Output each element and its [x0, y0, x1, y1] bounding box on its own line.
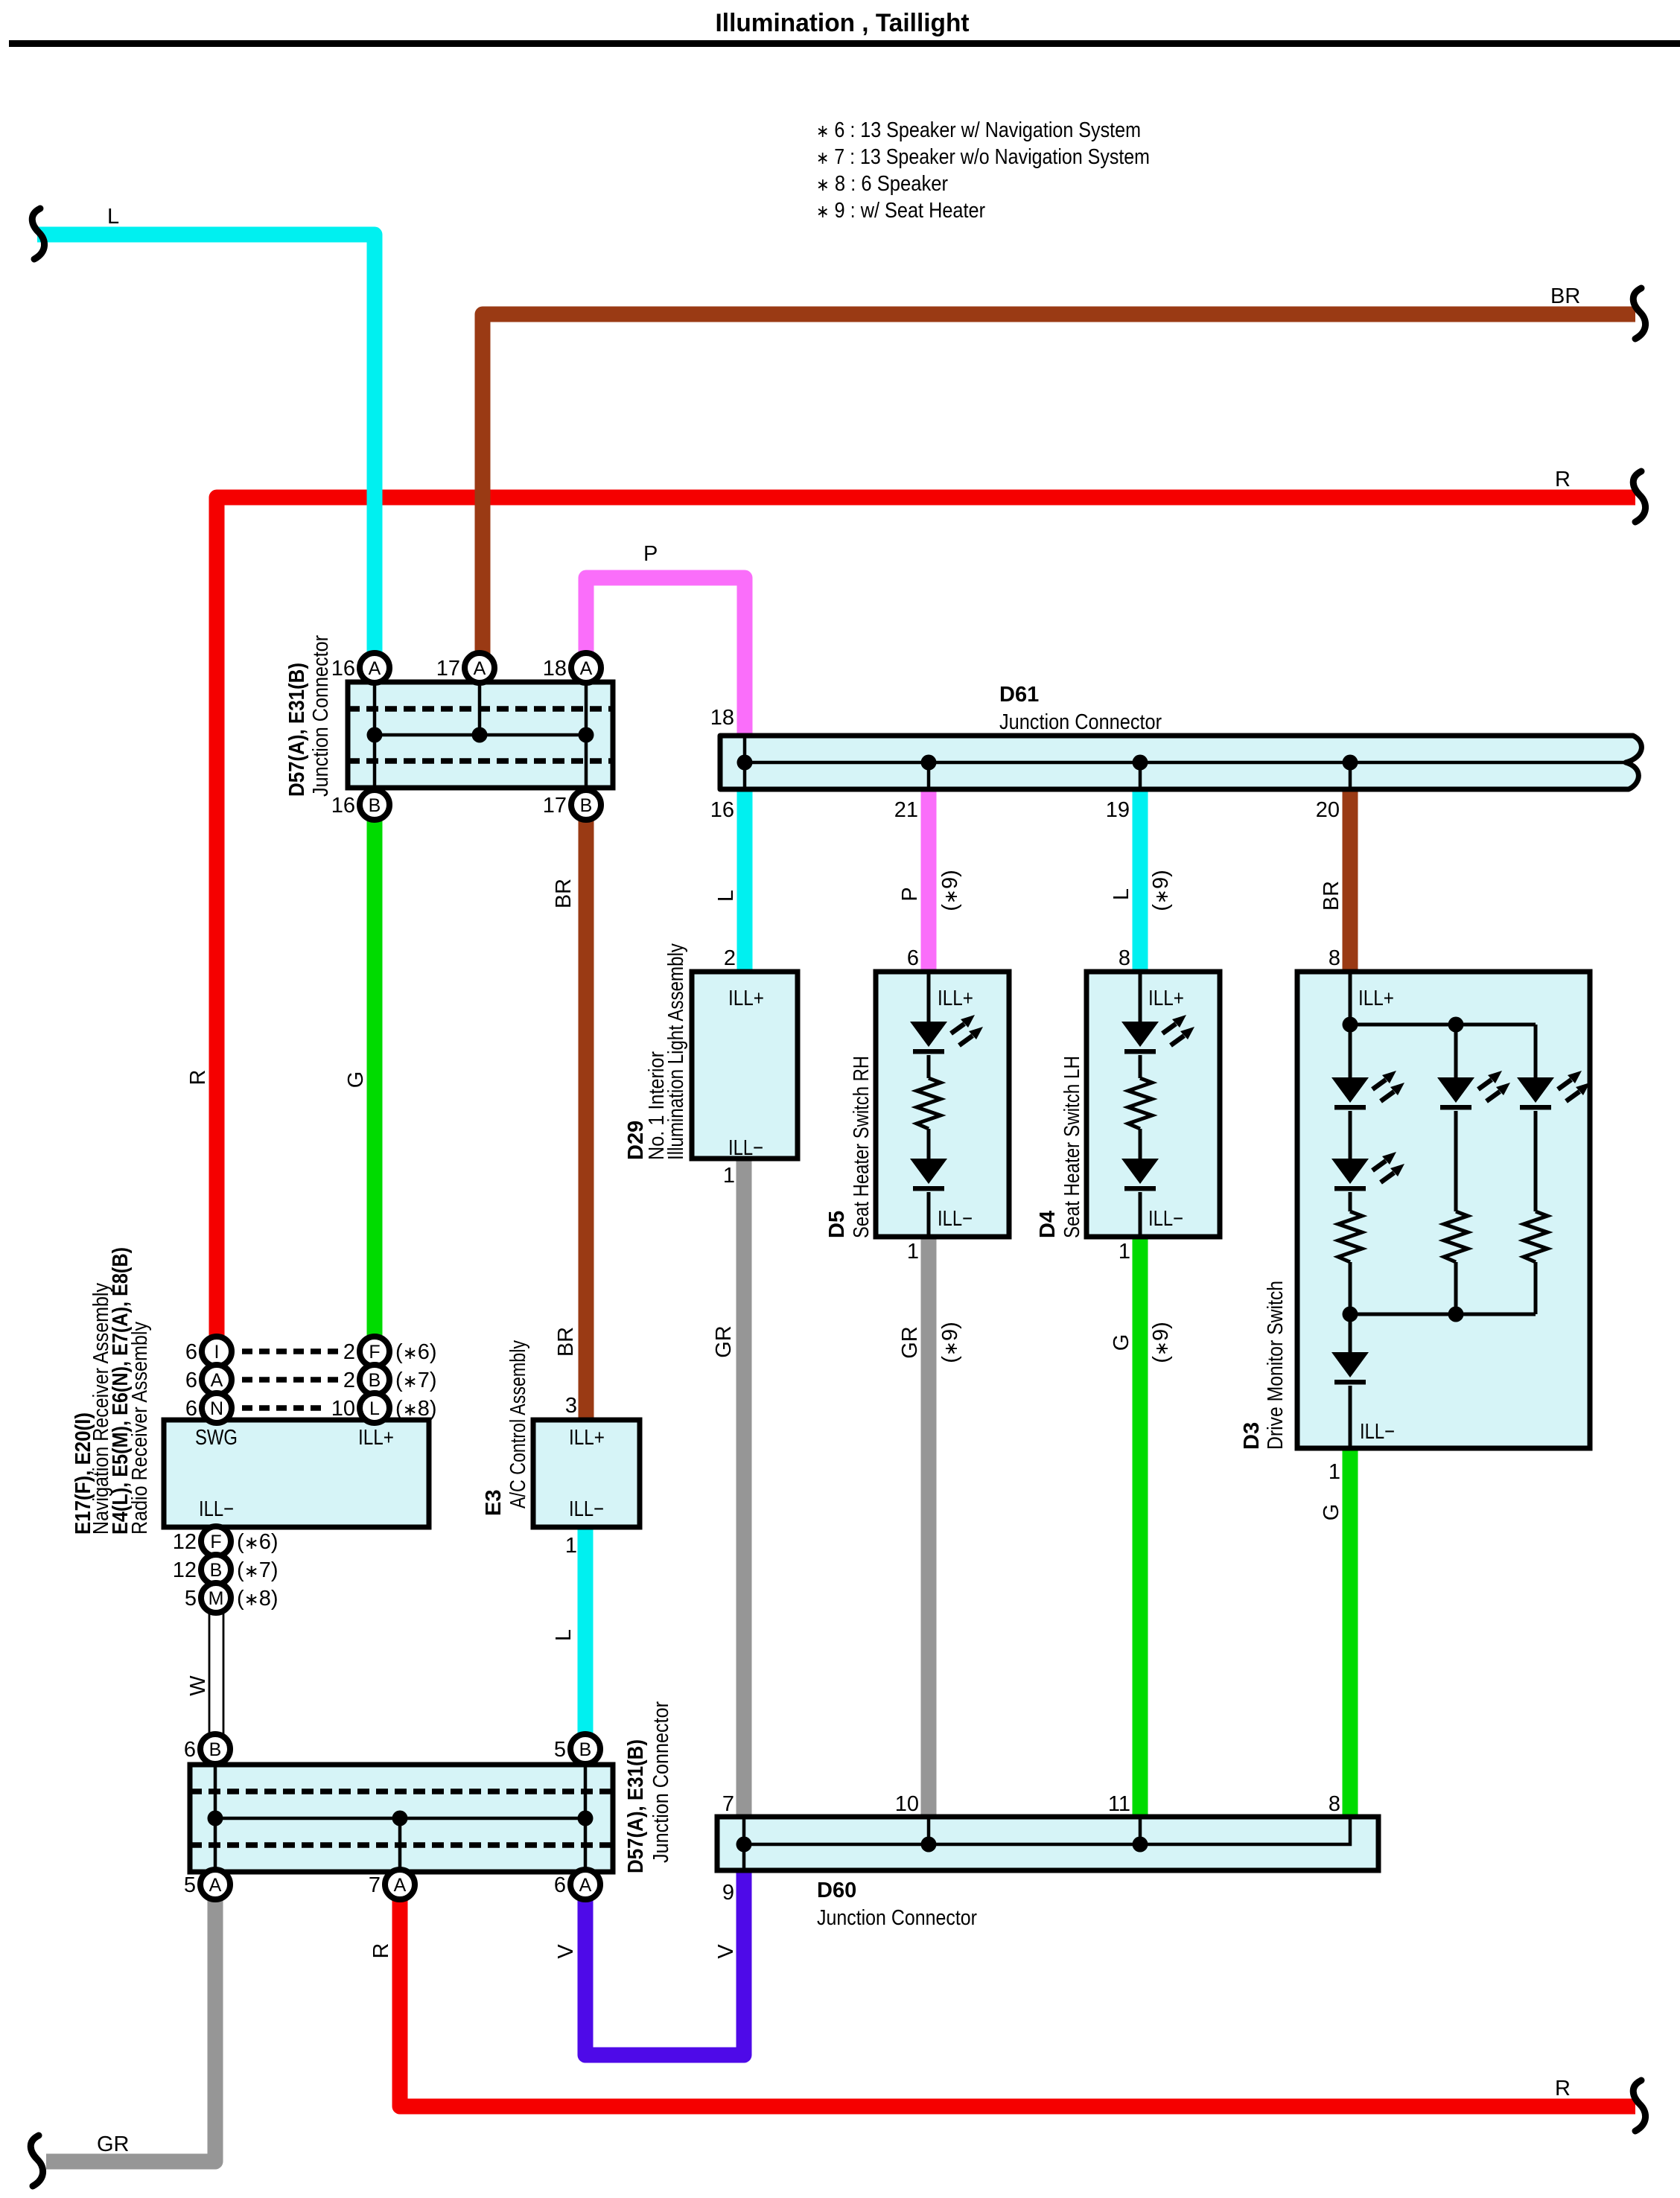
wire BR (brown) D57 pin 17B to E3 pin 3 [579, 805, 594, 1420]
svg-text:B: B [369, 1370, 381, 1391]
svg-text:G: G [1110, 1334, 1133, 1351]
pin 5B circle of bottom D57 [570, 1734, 600, 1764]
svg-text:10: 10 [331, 1397, 355, 1421]
svg-text:(∗6): (∗6) [237, 1530, 279, 1554]
D60 internal stub pin 11 [1139, 1817, 1142, 1844]
svg-text:B: B [580, 795, 593, 816]
svg-text:D57(A), E31(B): D57(A), E31(B) [285, 663, 309, 797]
svg-text:GR: GR [97, 2132, 130, 2156]
D60 internal stub pin 10 [927, 1817, 931, 1844]
svg-text:6: 6 [185, 1340, 197, 1364]
svg-text:G: G [344, 1071, 368, 1089]
D60 internal bus [744, 1817, 1350, 1844]
svg-text:L: L [369, 1398, 380, 1419]
junction connector D57(A),E31(B) top box [348, 682, 613, 788]
D4 diode cathode bar [1124, 1186, 1156, 1191]
svg-text:A: A [369, 658, 381, 679]
wire V (violet) D57 pin 6A to D60 pin 9 [585, 1870, 744, 2055]
wire L (cyan) D61 pin 16 to D29 pin 2 [737, 789, 753, 972]
top D57 junction dot 17 [472, 727, 488, 743]
bottom D57 dashed line lower [190, 1842, 613, 1848]
svg-text:BR: BR [552, 879, 576, 908]
svg-text:Drive Monitor Switch: Drive Monitor Switch [1264, 1281, 1288, 1450]
svg-text:F: F [210, 1532, 221, 1552]
D4 LED cathode bar [1124, 1049, 1156, 1054]
component D4 Seat Heater Switch LH box [1086, 972, 1220, 1237]
D3 LED4 cathode bar [1520, 1105, 1551, 1110]
wire BR (brown) from right break to D57 pin 17A [483, 314, 1635, 668]
top D57 internal vertical pin 16 [373, 682, 377, 788]
svg-text:(∗9): (∗9) [1149, 1322, 1173, 1363]
pin F circle of Radio top [360, 1337, 389, 1366]
svg-text:A: A [211, 1370, 223, 1391]
D3 LED4 arrow 1 [1558, 1080, 1571, 1089]
wire GR (gray) D57 pin 5A to left break [46, 1885, 215, 2162]
D3 LED1 arrow 1 [1372, 1080, 1386, 1089]
svg-text:17: 17 [543, 794, 567, 818]
D61 internal stub pin 19 [1139, 762, 1142, 789]
svg-text:L: L [714, 890, 738, 902]
D3 resistor branch2 [1444, 1211, 1468, 1262]
svg-text:12: 12 [173, 1530, 197, 1554]
pin B circle of Radio bottom [201, 1555, 231, 1584]
svg-text:(∗8): (∗8) [395, 1397, 437, 1421]
break symbol right end of wire BR [1633, 288, 1645, 339]
break symbol right end of wire R [1633, 471, 1645, 522]
D3 junction dot bottom branch2 [1448, 1307, 1464, 1322]
svg-text:(∗9): (∗9) [938, 1322, 962, 1363]
svg-text:8: 8 [1119, 946, 1130, 970]
svg-text:6: 6 [907, 946, 919, 970]
svg-text:D3: D3 [1240, 1422, 1264, 1450]
svg-text:(∗7): (∗7) [237, 1558, 279, 1582]
svg-text:A: A [394, 1875, 407, 1896]
pin 6A circle of bottom D57 [570, 1870, 600, 1899]
svg-text:2: 2 [724, 946, 736, 970]
svg-text:2: 2 [343, 1340, 355, 1364]
svg-text:6: 6 [185, 1397, 197, 1421]
svg-text:F: F [369, 1342, 380, 1363]
D3 LED3 arrow 1 [1478, 1080, 1492, 1089]
svg-text:ILL+: ILL+ [569, 1426, 605, 1450]
svg-text:16: 16 [331, 657, 355, 681]
break symbol left end of wire L [32, 208, 44, 259]
bottom D57 junction dot 6A [578, 1811, 594, 1826]
svg-text:16: 16 [710, 798, 734, 822]
title rule [9, 40, 1680, 47]
svg-text:Seat Heater Switch RH: Seat Heater Switch RH [850, 1056, 874, 1238]
svg-text:Radio Receiver Assembly: Radio Receiver Assembly [128, 1322, 152, 1535]
dashed link Radio row1 I to F [242, 1348, 339, 1354]
D4 resistor [1128, 1078, 1152, 1129]
svg-text:M: M [209, 1588, 224, 1609]
D3 resistor branch1 [1338, 1211, 1362, 1262]
svg-text:(∗8): (∗8) [237, 1587, 279, 1611]
pin A circle of Radio [202, 1365, 232, 1395]
D4 internal wire segments [1139, 972, 1142, 1237]
svg-text:E3: E3 [482, 1490, 506, 1516]
svg-text:BR: BR [1320, 881, 1343, 911]
svg-text:16: 16 [331, 794, 355, 818]
svg-text:L: L [1110, 888, 1133, 900]
break symbol left end of bottom wire GR [31, 2135, 42, 2186]
D5 LED cathode bar [913, 1049, 944, 1054]
svg-text:7: 7 [722, 1792, 734, 1816]
svg-text:A: A [580, 658, 593, 679]
svg-text:6: 6 [184, 1738, 196, 1762]
D60 internal vertical pin 7/9 [742, 1817, 746, 1870]
svg-text:12: 12 [173, 1558, 197, 1582]
D3 diode cathode bar [1334, 1380, 1366, 1385]
svg-text:∗ 7 : 13 Speaker w/o Navigatio: ∗ 7 : 13 Speaker w/o Navigation System [816, 145, 1150, 169]
svg-text:10: 10 [895, 1792, 919, 1816]
svg-text:1: 1 [723, 1164, 735, 1188]
wire GR (gray) D5 pin 1 to D60 pin 10 [921, 1237, 937, 1817]
pin 16A circle of top D57 [360, 653, 389, 683]
svg-text:D4: D4 [1036, 1211, 1060, 1238]
D5 LED triangle [910, 1022, 947, 1047]
D5 internal wire segments [927, 972, 931, 1237]
wire L (cyan) from left break to D57 pin 16A [37, 235, 375, 668]
svg-text:ILL−: ILL− [938, 1207, 973, 1231]
pin F circle of Radio bottom [201, 1526, 231, 1556]
D3 LED2 triangle [1331, 1159, 1369, 1184]
bottom D57 junction dot 7A [392, 1811, 408, 1826]
break symbol right end of bottom wire R [1633, 2080, 1645, 2131]
svg-text:ILL+: ILL+ [728, 987, 764, 1010]
svg-text:(∗7): (∗7) [395, 1369, 437, 1392]
top D57 junction dot 16 [367, 727, 383, 743]
svg-text:Seat Heater Switch LH: Seat Heater Switch LH [1060, 1056, 1084, 1238]
junction connector D60 box [717, 1817, 1378, 1870]
D3 junction dot top branch2 [1448, 1017, 1464, 1033]
pin 5A circle of bottom D57 [200, 1870, 230, 1899]
pin L circle of Radio top [360, 1393, 389, 1423]
D3 LED3 arrow 2 [1486, 1092, 1500, 1101]
D61 junction dot 16 [737, 755, 753, 771]
D3 LED1 cathode bar [1334, 1105, 1366, 1110]
component D3 Drive Monitor Switch box [1297, 972, 1590, 1448]
svg-text:5: 5 [185, 1587, 197, 1611]
svg-text:1: 1 [1119, 1240, 1130, 1264]
svg-text:17: 17 [436, 657, 460, 681]
bottom D57 internal vertical pin 5B/6A [584, 1765, 588, 1872]
svg-text:V: V [554, 1944, 578, 1959]
component Radio Receiver Assembly box [164, 1420, 429, 1527]
svg-text:ILL−: ILL− [569, 1497, 604, 1521]
svg-text:GR: GR [712, 1325, 736, 1358]
wire G (green) D4 pin 1 to D60 pin 11 [1133, 1237, 1148, 1817]
svg-text:D5: D5 [825, 1211, 849, 1238]
D3 internal wire segments [1350, 972, 1536, 1448]
D3 LED1 triangle [1331, 1077, 1369, 1103]
dashed link Radio row3 N to L [242, 1405, 325, 1411]
svg-text:B: B [369, 795, 381, 816]
pin 16B circle of top D57 [360, 790, 389, 820]
D4 diode triangle [1121, 1159, 1159, 1184]
svg-text:R: R [1555, 2077, 1571, 2100]
svg-text:L: L [552, 1629, 576, 1641]
svg-text:Junction Connector: Junction Connector [309, 635, 333, 797]
D3 LED3 triangle [1437, 1077, 1474, 1103]
svg-text:Junction Connector: Junction Connector [817, 1906, 977, 1930]
wire GR (gray) D29 pin 1 to D60 pin 7 [736, 1159, 752, 1817]
svg-text:ILL−: ILL− [1148, 1207, 1183, 1231]
svg-text:(∗6): (∗6) [395, 1340, 437, 1364]
svg-text:ILL+: ILL+ [1358, 987, 1394, 1010]
svg-text:19: 19 [1106, 798, 1130, 822]
junction connector D61 box with torn right end [720, 736, 1641, 789]
D60 junction dot 11 [1133, 1837, 1148, 1853]
svg-text:18: 18 [543, 657, 567, 681]
D61 junction dot 20 [1343, 755, 1358, 771]
svg-text:∗ 8 : 6 Speaker: ∗ 8 : 6 Speaker [816, 172, 948, 196]
svg-text:1: 1 [907, 1240, 919, 1264]
svg-text:BR: BR [554, 1327, 578, 1357]
svg-text:N: N [210, 1398, 223, 1419]
pin B circle of Radio top [360, 1365, 389, 1395]
svg-text:7: 7 [369, 1873, 381, 1897]
bottom D57 internal vertical pin 6B/5A [214, 1765, 217, 1872]
D60 junction dot 10 [921, 1837, 937, 1853]
svg-text:L: L [107, 205, 119, 229]
svg-text:ILL−: ILL− [1360, 1420, 1395, 1444]
D3 diode triangle [1331, 1352, 1369, 1377]
D5 diode cathode bar [913, 1186, 944, 1191]
svg-text:20: 20 [1316, 798, 1340, 822]
svg-text:ILL+: ILL+ [358, 1426, 394, 1450]
D61 junction dot 19 [1133, 755, 1148, 771]
D60 junction dot 7 [736, 1837, 752, 1853]
top D57 internal vertical pin 17A [478, 682, 482, 735]
svg-text:21: 21 [894, 798, 918, 822]
D61 internal stub pin 20 [1349, 762, 1352, 789]
svg-text:Junction Connector: Junction Connector [649, 1701, 673, 1863]
top D57 internal vertical pin 18A/17B [585, 682, 588, 788]
pin N circle of Radio [202, 1393, 232, 1423]
svg-text:W: W [186, 1675, 210, 1696]
svg-text:8: 8 [1329, 946, 1340, 970]
D4 LED arrow 1 [1162, 1024, 1176, 1033]
D3 junction dot top branch1 [1343, 1017, 1358, 1033]
D5 diode triangle [910, 1159, 947, 1184]
top D57 dashed line lower [348, 758, 613, 764]
D5 LED arrow 2 [959, 1036, 973, 1045]
D3 LED3 cathode bar [1440, 1105, 1471, 1110]
svg-text:Junction Connector: Junction Connector [999, 710, 1162, 734]
D3 LED2 arrow 1 [1372, 1161, 1386, 1170]
D4 LED triangle [1121, 1022, 1159, 1047]
D3 LED2 cathode bar [1334, 1186, 1366, 1191]
svg-text:ILL+: ILL+ [1148, 987, 1184, 1010]
svg-text:R: R [1555, 468, 1571, 491]
D3 junction dot bottom branch1 [1343, 1307, 1358, 1322]
svg-text:11: 11 [1108, 1792, 1130, 1816]
svg-text:B: B [210, 1560, 223, 1581]
D61 internal bus [745, 761, 1624, 765]
bottom D57 junction dot 5A [208, 1811, 223, 1826]
component D5 Seat Heater Switch RH box [876, 972, 1009, 1237]
svg-text:1: 1 [1329, 1460, 1340, 1484]
svg-text:Illumination Light Assembly: Illumination Light Assembly [664, 943, 688, 1160]
svg-text:A/C Control Assembly: A/C Control Assembly [506, 1340, 530, 1509]
pin 17A circle of top D57 [465, 653, 494, 683]
wire L (cyan) E3 pin 1 to D57 pin 5B [578, 1527, 594, 1749]
wire R (red) from right break to Radio pin I [217, 497, 1635, 1351]
svg-text:(∗9): (∗9) [1149, 870, 1173, 911]
bottom D57 internal vertical pin 7A [398, 1818, 402, 1872]
svg-text:P: P [643, 542, 658, 566]
junction connector D57(A),E31(B) bottom box [190, 1765, 613, 1872]
D3 resistor branch3 [1524, 1211, 1547, 1262]
svg-text:BR: BR [1550, 284, 1580, 308]
svg-text:D57(A), E31(B): D57(A), E31(B) [624, 1739, 648, 1873]
D61 internal vertical pin 18/16 [743, 736, 747, 789]
pin 7A circle of bottom D57 [385, 1870, 415, 1899]
svg-text:5: 5 [554, 1738, 566, 1762]
svg-text:8: 8 [1329, 1792, 1340, 1816]
svg-text:G: G [1320, 1504, 1343, 1521]
top D57 junction dot 18 [579, 727, 594, 743]
top D57 internal bus [375, 733, 586, 737]
svg-text:V: V [714, 1944, 738, 1959]
pin 6B circle of bottom D57 [200, 1734, 230, 1764]
svg-text:3: 3 [565, 1394, 577, 1418]
svg-text:∗ 9 : w/ Seat Heater: ∗ 9 : w/ Seat Heater [816, 199, 985, 223]
D5 LED arrow 1 [951, 1024, 964, 1033]
D61 junction dot 21 [921, 755, 937, 771]
pin 18A circle of top D57 [571, 653, 601, 683]
svg-text:5: 5 [184, 1873, 196, 1897]
wire G (green) D3 pin 1 to D60 pin 8 [1343, 1448, 1358, 1817]
svg-text:1: 1 [565, 1534, 577, 1558]
component D29 No.1 Interior Illumination Light Assembly box [692, 972, 798, 1159]
dashed link Radio row2 A to B [242, 1377, 339, 1383]
svg-text:∗ 6 : 13 Speaker w/ Navigation: ∗ 6 : 13 Speaker w/ Navigation System [816, 118, 1141, 142]
svg-text:ILL−: ILL− [728, 1136, 763, 1160]
component E3 A/C Control Assembly box [533, 1420, 640, 1527]
wire G (green) D57 pin 16B to Radio pin F [367, 805, 383, 1351]
svg-text:D60: D60 [817, 1879, 856, 1902]
D61 internal stub pin 21 [927, 762, 931, 789]
D5 resistor [917, 1078, 941, 1129]
svg-text:A: A [209, 1875, 222, 1896]
svg-text:(∗9): (∗9) [938, 870, 962, 911]
bottom D57 dashed line upper [190, 1788, 613, 1794]
top D57 dashed line upper [348, 706, 613, 712]
svg-text:Illumination , Taillight: Illumination , Taillight [716, 9, 970, 37]
svg-text:9: 9 [722, 1881, 734, 1905]
svg-text:ILL−: ILL− [199, 1497, 234, 1521]
svg-text:D61: D61 [999, 683, 1039, 707]
svg-text:2: 2 [343, 1369, 355, 1392]
wire L (cyan) D61 pin 19 to D4 pin 8 [1133, 789, 1148, 972]
pin M circle of Radio bottom [201, 1583, 231, 1613]
svg-text:6: 6 [554, 1873, 566, 1897]
wire BR (brown) D61 pin 20 to D3 pin 8 [1343, 789, 1358, 972]
svg-text:ILL+: ILL+ [938, 987, 973, 1010]
svg-text:R: R [369, 1943, 393, 1959]
pin I circle of Radio [202, 1337, 232, 1366]
svg-text:I: I [214, 1342, 220, 1363]
svg-text:6: 6 [185, 1369, 197, 1392]
wire R (red) D57 pin 7A to right break [400, 1885, 1635, 2106]
wire P (pink) jumper D57 pin 18A to D61 pin 18 [586, 578, 745, 737]
svg-text:GR: GR [898, 1326, 922, 1359]
D3 LED1 arrow 2 [1381, 1092, 1394, 1101]
svg-text:SWG: SWG [195, 1426, 238, 1450]
D4 LED arrow 2 [1171, 1036, 1184, 1045]
svg-text:18: 18 [710, 706, 734, 730]
D3 LED4 triangle [1517, 1077, 1554, 1103]
wire W (white) Radio pin M to D57 pin 6B [209, 1598, 223, 1749]
svg-text:A: A [579, 1875, 592, 1896]
svg-text:R: R [186, 1070, 210, 1086]
D3 LED2 arrow 2 [1381, 1173, 1394, 1182]
svg-text:A: A [474, 658, 486, 679]
svg-text:B: B [579, 1739, 592, 1760]
wire P (pink) D61 pin 21 to D5 pin 6 [921, 789, 937, 972]
svg-text:P: P [898, 887, 922, 901]
pin 17B circle of top D57 [571, 790, 601, 820]
svg-text:B: B [209, 1739, 222, 1760]
D3 LED4 arrow 2 [1566, 1092, 1579, 1101]
bottom D57 internal bus [215, 1817, 585, 1820]
